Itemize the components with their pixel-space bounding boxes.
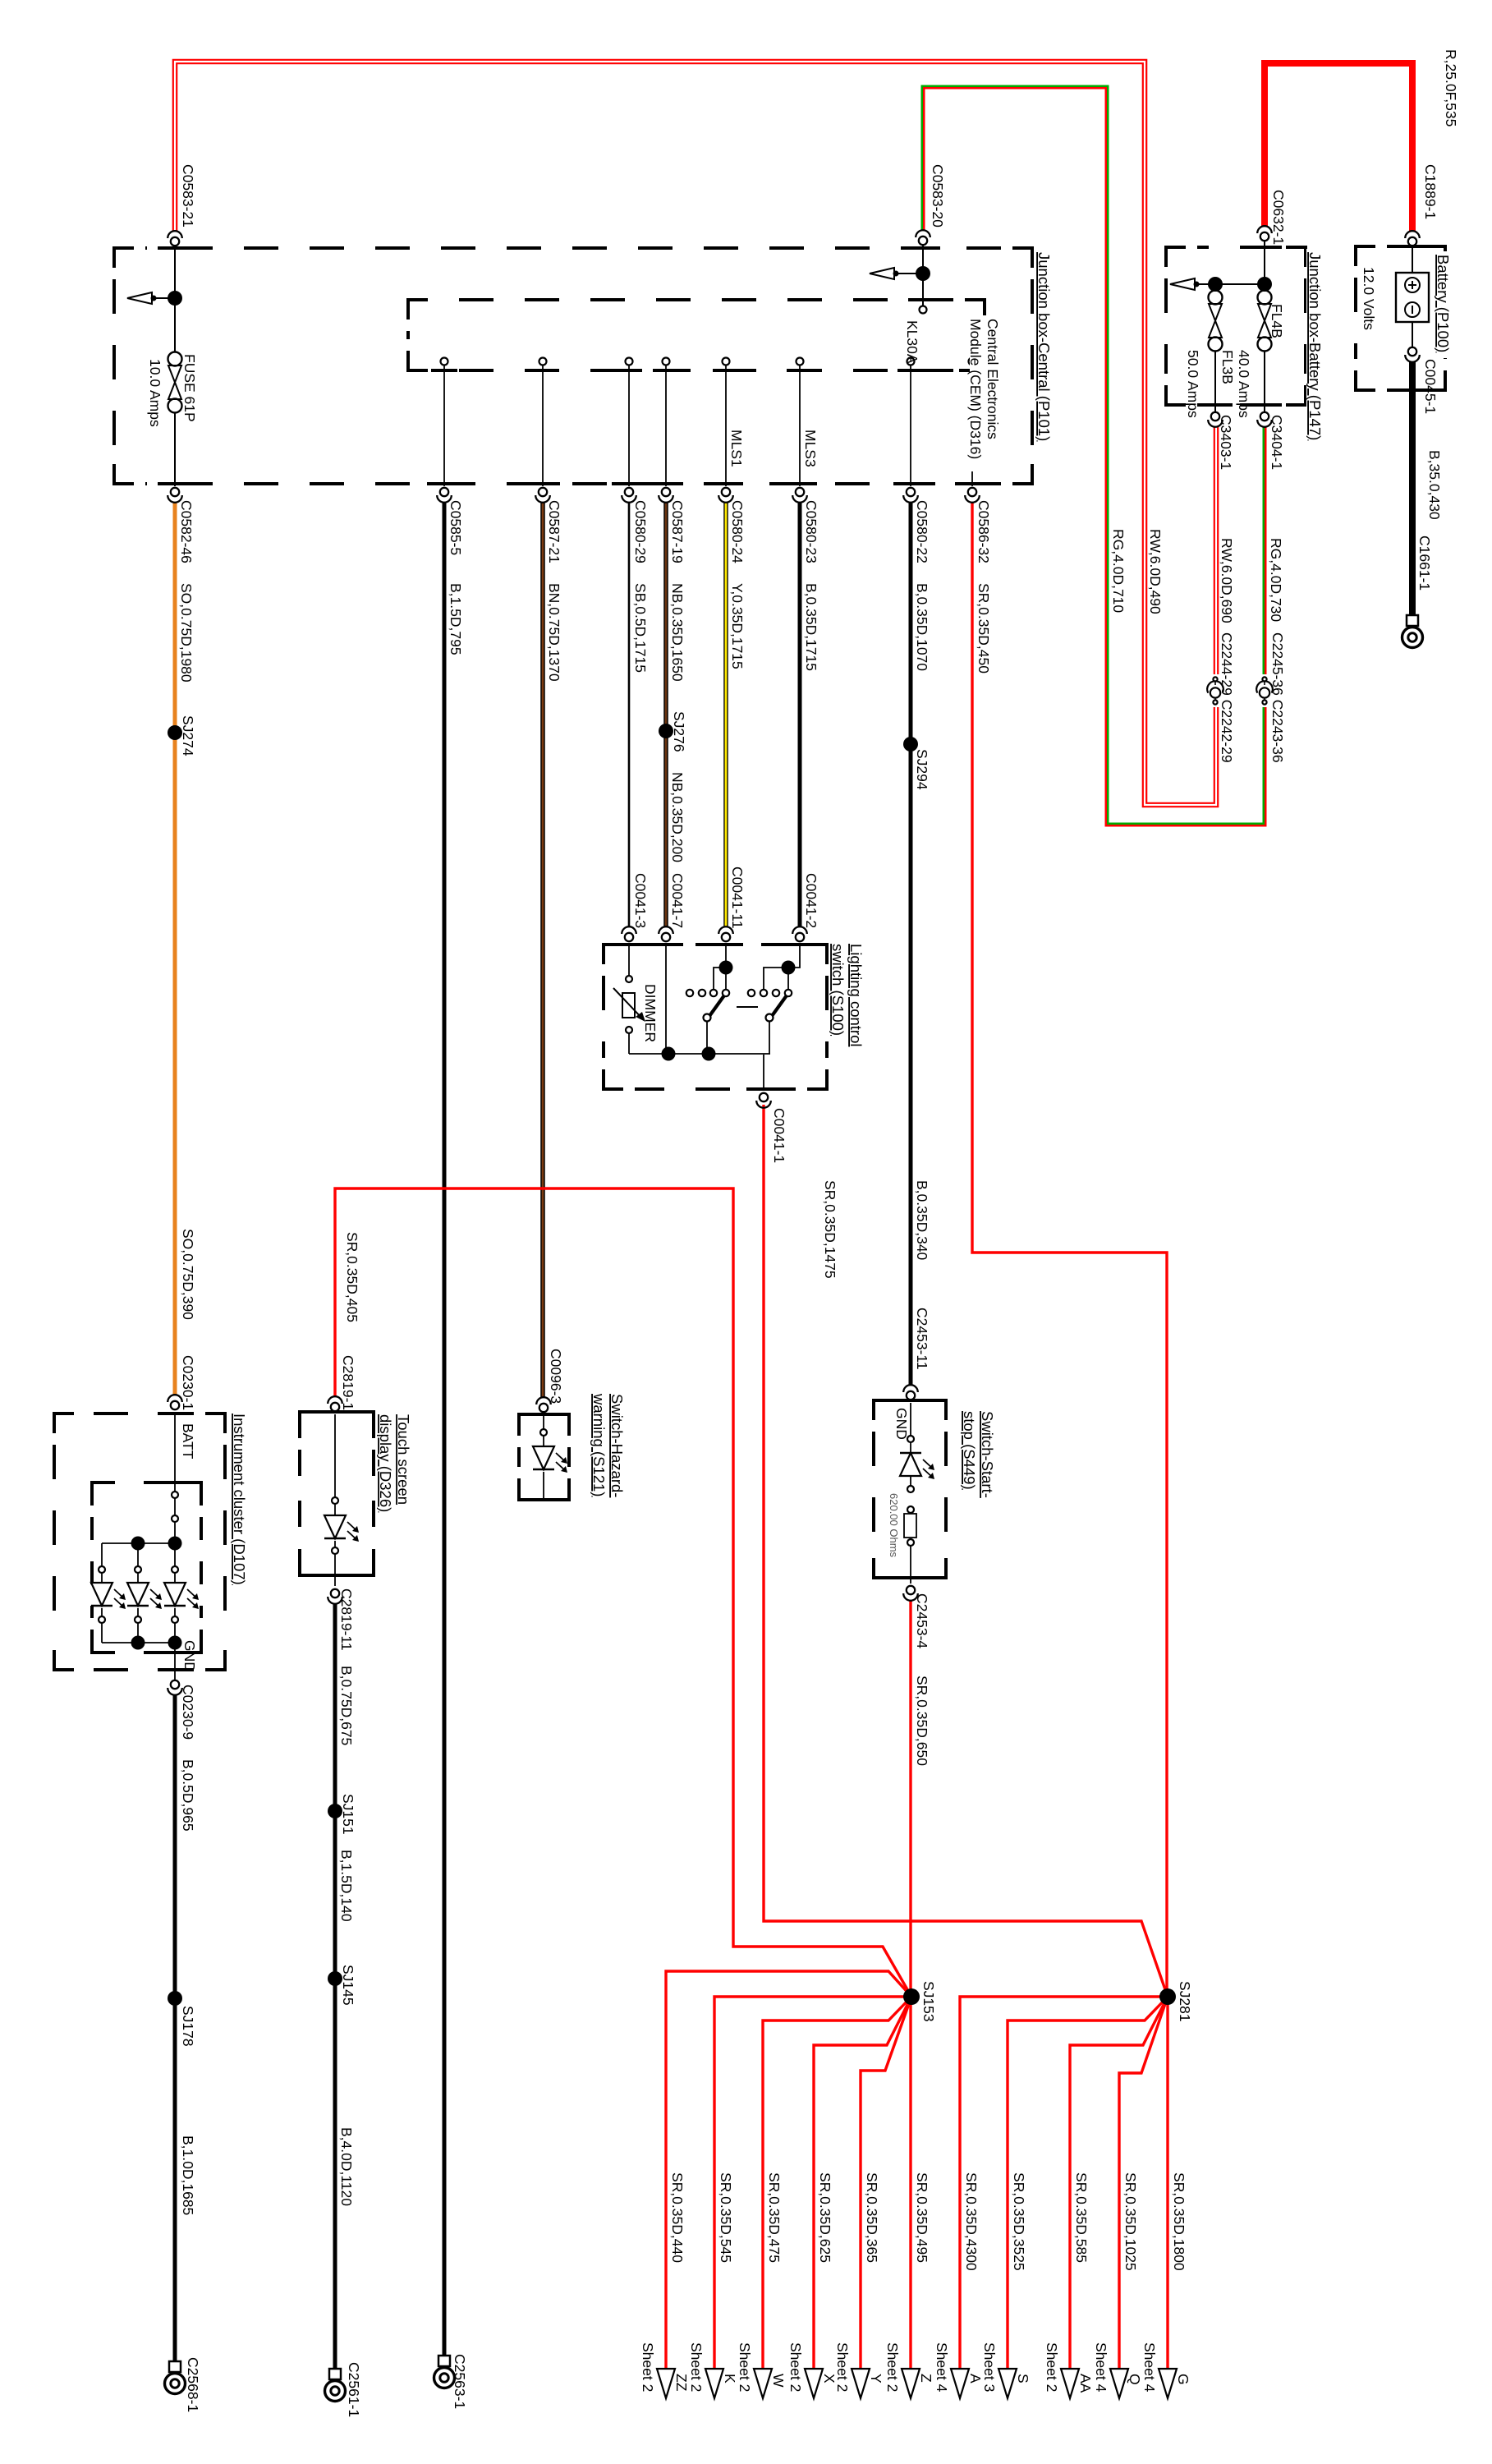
svg-text:C0583-20: C0583-20 (930, 164, 946, 228)
svg-text:Junction box-Battery (P147): Junction box-Battery (P147) (1306, 252, 1324, 440)
svg-text:Module (CEM) (D316): Module (CEM) (D316) (967, 319, 984, 459)
svg-text:GND: GND (181, 1640, 198, 1672)
svg-text:W: W (770, 2374, 787, 2388)
svg-text:C2819-1: C2819-1 (340, 1355, 356, 1410)
svg-text:Y,0.35D,1715: Y,0.35D,1715 (729, 583, 746, 669)
svg-text:SR,0.35D,450: SR,0.35D,450 (976, 583, 992, 673)
svg-text:SR,0.35D,545: SR,0.35D,545 (718, 2172, 734, 2263)
svg-text:12.0 Volts: 12.0 Volts (1361, 267, 1377, 330)
svg-text:FL3B: FL3B (1219, 350, 1236, 384)
svg-text:ZZ: ZZ (673, 2374, 690, 2392)
svg-text:C3404-1: C3404-1 (1269, 415, 1285, 470)
svg-text:Sheet 2: Sheet 2 (884, 2342, 901, 2392)
svg-text:Switch-Start-: Switch-Start- (979, 1411, 996, 1498)
svg-text:BATT: BATT (180, 1423, 196, 1460)
svg-text:C2568-1: C2568-1 (185, 2357, 201, 2412)
svg-text:NB,0.35D,1650: NB,0.35D,1650 (669, 583, 686, 682)
svg-text:Sheet 2: Sheet 2 (640, 2342, 656, 2392)
svg-text:10.0 Amps: 10.0 Amps (147, 359, 163, 427)
svg-text:B,0.35D,1715: B,0.35D,1715 (803, 583, 819, 671)
svg-text:SR,0.35D,365: SR,0.35D,365 (864, 2172, 880, 2263)
svg-text:Sheet 2: Sheet 2 (834, 2342, 851, 2392)
svg-text:C0586-32: C0586-32 (976, 500, 992, 563)
svg-text:B,1.5D,140: B,1.5D,140 (338, 1850, 355, 1922)
svg-text:C0041-2: C0041-2 (803, 873, 819, 928)
svg-text:SO,0.75D,390: SO,0.75D,390 (180, 1229, 196, 1320)
svg-text:Touch screen: Touch screen (395, 1414, 412, 1505)
svg-text:C0041-1: C0041-1 (771, 1108, 787, 1163)
svg-text:C0230-9: C0230-9 (180, 1685, 196, 1740)
svg-text:C0583-21: C0583-21 (180, 164, 196, 228)
svg-text:BN,0.75D,1370: BN,0.75D,1370 (546, 583, 562, 682)
svg-text:SJ274: SJ274 (180, 715, 196, 756)
svg-text:C1889-1: C1889-1 (1422, 164, 1439, 219)
svg-text:C2819-11: C2819-11 (338, 1588, 355, 1651)
svg-text:B,0.35D,340: B,0.35D,340 (914, 1180, 930, 1261)
svg-text:stop (S449): stop (S449) (961, 1411, 978, 1490)
svg-text:C1661-1: C1661-1 (1416, 536, 1433, 591)
svg-text:Sheet 2: Sheet 2 (1044, 2342, 1060, 2392)
svg-text:B,0.35D,1070: B,0.35D,1070 (914, 583, 930, 671)
svg-text:R,25.0F,535: R,25.0F,535 (1443, 49, 1459, 126)
svg-text:SR,0.35D,1800: SR,0.35D,1800 (1171, 2172, 1187, 2271)
svg-text:SO,0.75D,1980: SO,0.75D,1980 (178, 583, 195, 683)
svg-text:C0096-3: C0096-3 (548, 1349, 564, 1404)
svg-text:C0230-1: C0230-1 (180, 1355, 196, 1410)
svg-text:MLS3: MLS3 (802, 430, 819, 467)
svg-text:50.0 Amps: 50.0 Amps (1185, 350, 1201, 418)
svg-text:S: S (1015, 2374, 1031, 2384)
svg-text:C2561-1: C2561-1 (346, 2362, 362, 2417)
svg-text:C0580-24: C0580-24 (729, 500, 746, 563)
svg-text:Y: Y (868, 2374, 884, 2384)
svg-text:SJ276: SJ276 (671, 711, 687, 752)
svg-text:SJ178: SJ178 (180, 2006, 196, 2047)
svg-text:K: K (722, 2374, 738, 2384)
svg-text:switch (S100): switch (S100) (829, 944, 847, 1036)
svg-text:Q: Q (1127, 2374, 1143, 2385)
svg-text:B,0.75D,675: B,0.75D,675 (338, 1666, 355, 1745)
svg-text:B,1.0D,1685: B,1.0D,1685 (180, 2135, 196, 2215)
svg-text:B,0.5D,965: B,0.5D,965 (180, 1759, 196, 1832)
svg-text:C2453-11: C2453-11 (914, 1308, 930, 1370)
svg-text:Switch-Hazard-: Switch-Hazard- (608, 1394, 626, 1497)
svg-text:SR,0.35D,4300: SR,0.35D,4300 (963, 2172, 980, 2271)
svg-text:C2244-29 C2242-29: C2244-29 C2242-29 (1219, 632, 1235, 763)
svg-text:Sheet 2: Sheet 2 (787, 2342, 804, 2392)
svg-text:SR,0.35D,650: SR,0.35D,650 (914, 1676, 930, 1766)
svg-text:B,4.0D,1120: B,4.0D,1120 (338, 2127, 355, 2206)
svg-text:Sheet 3: Sheet 3 (981, 2342, 998, 2392)
svg-text:AA: AA (1077, 2374, 1094, 2393)
svg-text:C0045-1: C0045-1 (1422, 359, 1439, 414)
svg-text:Lighting control: Lighting control (847, 944, 865, 1046)
svg-text:620.00 Ohms: 620.00 Ohms (888, 1493, 900, 1558)
svg-text:SR,0.35D,475: SR,0.35D,475 (766, 2172, 783, 2263)
svg-text:Battery (P100): Battery (P100) (1435, 255, 1452, 352)
svg-text:SB,0.5D,1715: SB,0.5D,1715 (632, 583, 649, 673)
svg-text:Sheet 4: Sheet 4 (934, 2342, 950, 2393)
svg-text:40.0 Amps: 40.0 Amps (1236, 350, 1252, 418)
svg-text:C2453-4: C2453-4 (914, 1593, 930, 1648)
svg-text:SR,0.35D,3525: SR,0.35D,3525 (1011, 2172, 1027, 2271)
svg-text:Z: Z (918, 2374, 934, 2383)
svg-text:C0580-29: C0580-29 (632, 500, 649, 563)
svg-text:SJ153: SJ153 (920, 1981, 937, 2022)
svg-text:warning (S121): warning (S121) (590, 1393, 608, 1496)
svg-text:FUSE 61P: FUSE 61P (181, 354, 198, 422)
svg-text:KL30A: KL30A (904, 320, 920, 364)
svg-text:C0582-46: C0582-46 (178, 500, 195, 563)
svg-text:SR,0.35D,440: SR,0.35D,440 (669, 2172, 686, 2263)
svg-text:C0632-1: C0632-1 (1270, 190, 1287, 245)
svg-text:RW,6.0D,490: RW,6.0D,490 (1147, 529, 1164, 614)
svg-text:C0580-23: C0580-23 (803, 500, 819, 563)
svg-text:Instrument cluster (D107): Instrument cluster (D107) (231, 1414, 248, 1585)
svg-text:SJ281: SJ281 (1177, 1981, 1193, 2022)
svg-text:Sheet 2: Sheet 2 (737, 2342, 753, 2392)
svg-text:C0587-21: C0587-21 (546, 500, 562, 563)
svg-text:B,1.5D,795: B,1.5D,795 (448, 583, 464, 655)
svg-text:C3403-1: C3403-1 (1218, 415, 1234, 470)
svg-text:NB,0.35D,200: NB,0.35D,200 (669, 772, 686, 862)
svg-text:B,35.0,430: B,35.0,430 (1426, 450, 1443, 520)
svg-text:RG,4.0D,730: RG,4.0D,730 (1268, 538, 1284, 622)
svg-text:C0587-19: C0587-19 (669, 500, 686, 563)
svg-text:RW,6.0D,690: RW,6.0D,690 (1219, 538, 1235, 623)
svg-text:C0585-5: C0585-5 (448, 500, 464, 555)
svg-text:RG,4.0D,710: RG,4.0D,710 (1110, 529, 1127, 613)
svg-text:Sheet 2: Sheet 2 (688, 2342, 705, 2392)
svg-text:SJ151: SJ151 (340, 1794, 356, 1835)
svg-text:SJ145: SJ145 (340, 1965, 356, 2006)
svg-text:C0041-7: C0041-7 (669, 873, 686, 928)
svg-text:SJ294: SJ294 (914, 749, 930, 790)
svg-text:Junction box-Central (P101): Junction box-Central (P101) (1035, 252, 1053, 441)
svg-text:C0041-3: C0041-3 (632, 873, 649, 928)
svg-text:G: G (1175, 2374, 1191, 2385)
svg-text:GND: GND (893, 1408, 910, 1440)
svg-text:C2245-36 C2243-36: C2245-36 C2243-36 (1269, 632, 1286, 763)
svg-text:SR,0.35D,585: SR,0.35D,585 (1073, 2172, 1090, 2263)
svg-text:FL4B: FL4B (1269, 304, 1285, 338)
svg-text:SR,0.35D,495: SR,0.35D,495 (914, 2172, 930, 2263)
svg-text:SR,0.35D,625: SR,0.35D,625 (817, 2172, 833, 2263)
svg-text:C2563-1: C2563-1 (452, 2354, 468, 2409)
svg-text:Sheet 4: Sheet 4 (1141, 2342, 1158, 2393)
svg-text:display (D326): display (D326) (377, 1414, 394, 1512)
svg-text:Sheet 4: Sheet 4 (1093, 2342, 1109, 2393)
svg-text:MLS1: MLS1 (728, 430, 745, 467)
svg-text:SR,0.35D,405: SR,0.35D,405 (344, 1232, 360, 1322)
svg-text:DIMMER: DIMMER (642, 984, 659, 1042)
svg-text:Central Electronics: Central Electronics (985, 319, 1001, 439)
svg-text:C0041-11: C0041-11 (729, 867, 746, 929)
svg-text:C0580-22: C0580-22 (914, 500, 930, 563)
svg-text:SR,0.35D,1025: SR,0.35D,1025 (1122, 2172, 1139, 2271)
svg-text:SR,0.35D,1475: SR,0.35D,1475 (822, 1180, 838, 1279)
svg-text:A: A (967, 2374, 984, 2384)
